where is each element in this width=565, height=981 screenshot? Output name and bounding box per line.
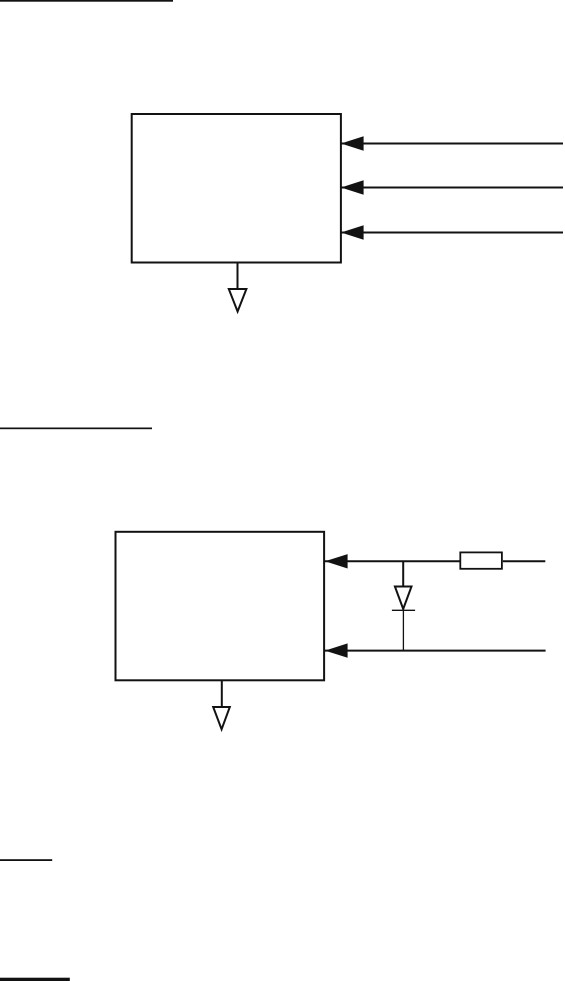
arrowhead: input 1 into U1 [341,136,364,150]
wire: input 1 to U1 [341,143,563,145]
wire: input A from resistor to U2 [324,560,460,562]
arrowhead: input B into U2 [325,643,348,657]
wire: U1 output stem down [237,263,239,290]
open arrowhead: U2 output (down) [213,707,230,729]
wire: input B to U2 [324,650,545,652]
heading underline (third section) [0,859,52,861]
block U2 [116,532,325,681]
wire: right of resistor R1 [503,560,545,562]
heading underline (bottom, cropped) [0,978,70,981]
wire: diode anode stem [402,561,404,586]
arrowhead: input 3 into U1 [341,225,364,239]
arrowhead: input A into U2 [325,554,348,568]
wire: input 3 to U1 [341,232,563,234]
diode D1 cathode bar [392,609,415,611]
heading underline (second section) [0,428,152,430]
heading underline (top, cropped) [0,0,173,2]
block U1 [132,114,341,263]
resistor R1 [460,552,502,568]
open arrowhead: U1 output (down) [229,289,247,312]
diode D1 (anode top, cathode bottom) [395,587,412,610]
wire: diode cathode to lower line [402,610,404,650]
wire: U2 output stem down [221,680,223,707]
arrowhead: input 2 into U1 [341,180,364,194]
wire: input 2 to U1 [341,187,563,189]
